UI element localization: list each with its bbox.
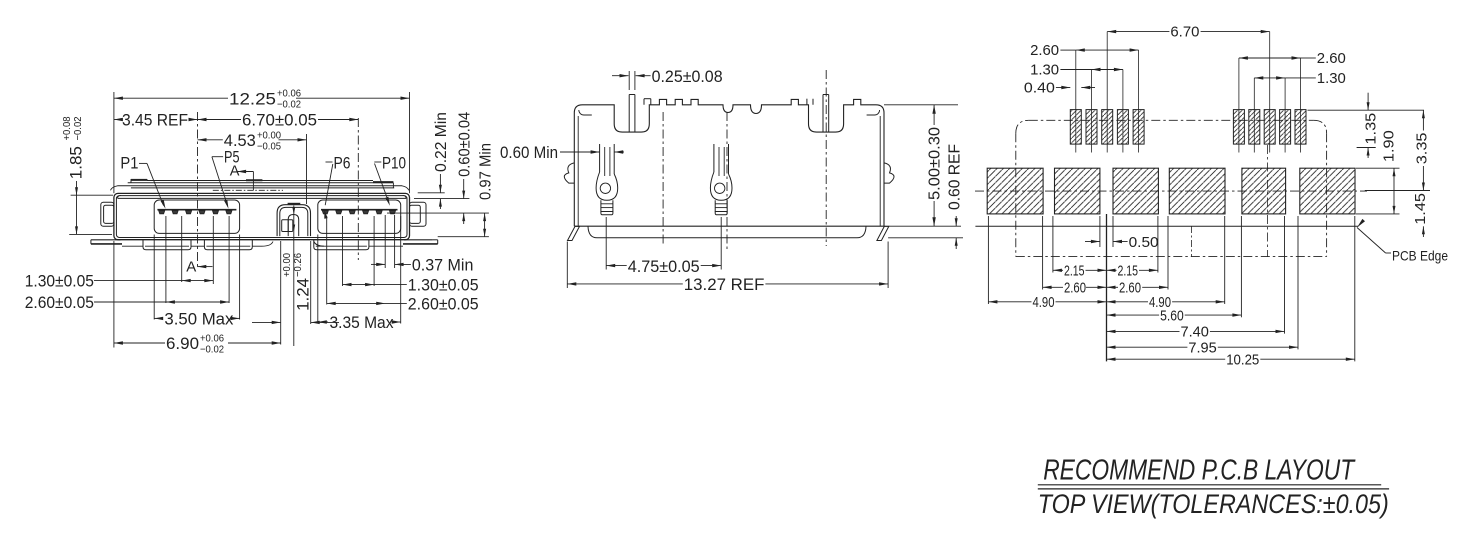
svg-text:A: A xyxy=(186,259,196,276)
svg-text:7.95: 7.95 xyxy=(1188,339,1216,356)
svg-text:2.60: 2.60 xyxy=(1064,280,1086,297)
svg-text:2.15: 2.15 xyxy=(1118,263,1139,280)
svg-text:PCB Edge: PCB Edge xyxy=(1392,248,1448,264)
svg-text:2.60±0.05: 2.60±0.05 xyxy=(25,293,94,312)
svg-text:1.30±0.05: 1.30±0.05 xyxy=(408,276,479,295)
svg-text:4.90: 4.90 xyxy=(1033,294,1055,311)
svg-text:0.60 Min: 0.60 Min xyxy=(500,143,558,162)
svg-text:0.37 Min: 0.37 Min xyxy=(412,255,474,274)
svg-text:0.22 Min: 0.22 Min xyxy=(433,112,450,172)
svg-text:−0.02: −0.02 xyxy=(72,116,84,140)
svg-text:1.90: 1.90 xyxy=(1381,130,1398,162)
svg-text:1.85: 1.85 xyxy=(67,146,86,179)
svg-text:0.50: 0.50 xyxy=(1129,234,1159,251)
svg-text:10.25: 10.25 xyxy=(1226,351,1259,368)
svg-text:2.60±0.05: 2.60±0.05 xyxy=(408,294,479,313)
svg-text:6.90: 6.90 xyxy=(166,334,199,353)
svg-text:0.25±0.08: 0.25±0.08 xyxy=(652,67,723,86)
svg-text:3.50 Max: 3.50 Max xyxy=(164,309,233,328)
svg-text:P1: P1 xyxy=(120,154,138,173)
svg-text:P10: P10 xyxy=(382,154,406,173)
svg-text:1.30±0.05: 1.30±0.05 xyxy=(25,272,94,291)
svg-text:2.60: 2.60 xyxy=(1317,50,1346,67)
svg-text:2.60: 2.60 xyxy=(1030,42,1059,59)
svg-text:12.25: 12.25 xyxy=(229,90,276,109)
svg-text:−0.05: −0.05 xyxy=(257,141,281,153)
svg-text:3.35 Max: 3.35 Max xyxy=(330,313,394,332)
svg-text:3.45 REF: 3.45 REF xyxy=(122,111,188,130)
svg-text:2.60: 2.60 xyxy=(1119,280,1141,297)
svg-text:−0.26: −0.26 xyxy=(292,253,304,277)
svg-text:TOP VIEW(TOLERANCES:±0.05): TOP VIEW(TOLERANCES:±0.05) xyxy=(1038,489,1389,519)
svg-text:−0.02: −0.02 xyxy=(277,99,301,111)
svg-text:1.45: 1.45 xyxy=(1412,193,1429,225)
svg-text:3.35: 3.35 xyxy=(1414,133,1431,165)
svg-text:13.27 REF: 13.27 REF xyxy=(684,275,765,294)
svg-text:2.15: 2.15 xyxy=(1064,263,1085,280)
svg-text:1.24: 1.24 xyxy=(294,278,313,311)
svg-text:5.00±0.30: 5.00±0.30 xyxy=(927,127,944,200)
svg-text:6.70: 6.70 xyxy=(1170,24,1199,41)
svg-text:RECOMMEND P.C.B LAYOUT: RECOMMEND P.C.B LAYOUT xyxy=(1043,455,1356,487)
svg-text:4.75±0.05: 4.75±0.05 xyxy=(628,257,700,276)
svg-text:1.35: 1.35 xyxy=(1363,113,1380,145)
svg-text:5.60: 5.60 xyxy=(1160,307,1184,324)
svg-text:1.30: 1.30 xyxy=(1030,62,1059,79)
svg-text:0.60±0.04: 0.60±0.04 xyxy=(457,112,474,177)
svg-text:P6: P6 xyxy=(334,154,351,173)
svg-text:7.40: 7.40 xyxy=(1181,324,1209,341)
svg-text:−0.02: −0.02 xyxy=(200,344,224,356)
svg-text:6.70±0.05: 6.70±0.05 xyxy=(242,111,317,130)
svg-text:0.40: 0.40 xyxy=(1024,80,1055,97)
svg-text:0.97 Min: 0.97 Min xyxy=(478,143,495,200)
svg-text:1.30: 1.30 xyxy=(1317,70,1346,87)
svg-text:0.60 REF: 0.60 REF xyxy=(946,144,963,210)
